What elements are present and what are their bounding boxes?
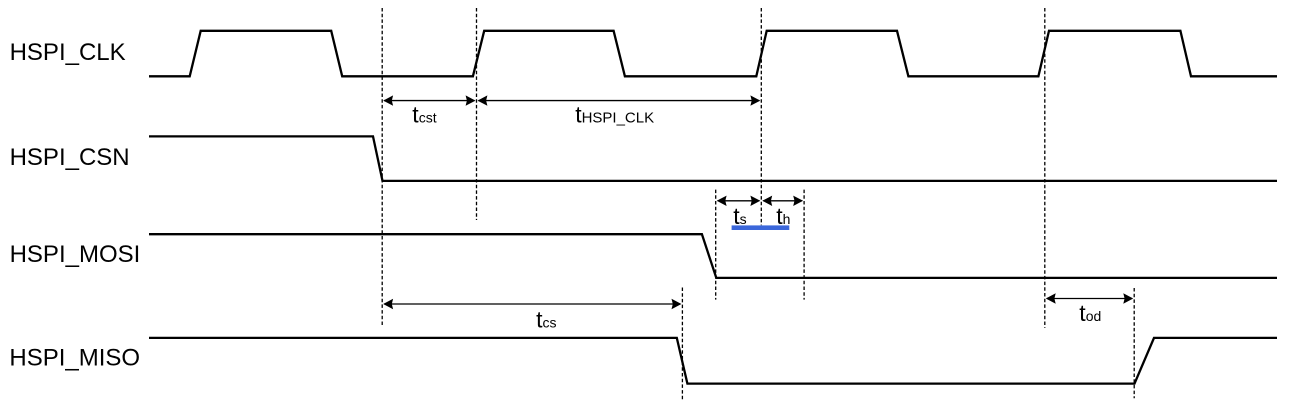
dashed guide line at MISO rise (x=1134.2)	[1133, 288, 1135, 398]
dashed guide line at CSN fall (x=382)	[381, 8, 383, 327]
svg-text:HSPI_CSN: HSPI_CSN	[10, 144, 130, 171]
dashed guide line hold end (x=804.1)	[803, 190, 805, 300]
svg-text:HSPI_MISO: HSPI_MISO	[9, 345, 140, 372]
waveform HSPI_CSN	[149, 136, 1277, 181]
arrow tod (double headed)	[1046, 293, 1133, 303]
dashed guide line at CLK rise 2 (x=476.5)	[476, 8, 478, 220]
dashed guide line at CLK rise 4 (x=1044.8)	[1044, 8, 1046, 328]
arrow tHSPI_CLK (double headed)	[478, 95, 761, 105]
arrow tcst (double headed)	[383, 95, 475, 105]
dashed guide line at CLK rise 3 (x=761.3)	[760, 8, 762, 225]
svg-text:tcs: tcs	[536, 307, 556, 333]
dashed guide line at MISO fall (x=682.4)	[681, 288, 683, 400]
svg-text:ts: ts	[733, 203, 746, 229]
svg-text:tcst: tcst	[412, 102, 436, 128]
svg-text:tod: tod	[1079, 300, 1101, 326]
arrow tcs (double headed)	[383, 299, 681, 309]
waveform HSPI_MOSI	[149, 234, 1277, 278]
svg-text:HSPI_CLK: HSPI_CLK	[10, 39, 126, 66]
svg-text:HSPI_MOSI: HSPI_MOSI	[10, 241, 141, 268]
dashed guide line at MOSI fall (x=715.7)	[715, 190, 717, 300]
svg-text:th: th	[776, 203, 790, 229]
arrow ts (double headed)	[717, 196, 761, 206]
blue underline bar under ts/th	[732, 225, 790, 230]
svg-text:tHSPI_CLK: tHSPI_CLK	[575, 102, 654, 128]
waveform HSPI_CLK	[149, 31, 1277, 77]
waveform HSPI_MISO	[149, 338, 1277, 384]
arrow th (double headed)	[762, 196, 803, 206]
